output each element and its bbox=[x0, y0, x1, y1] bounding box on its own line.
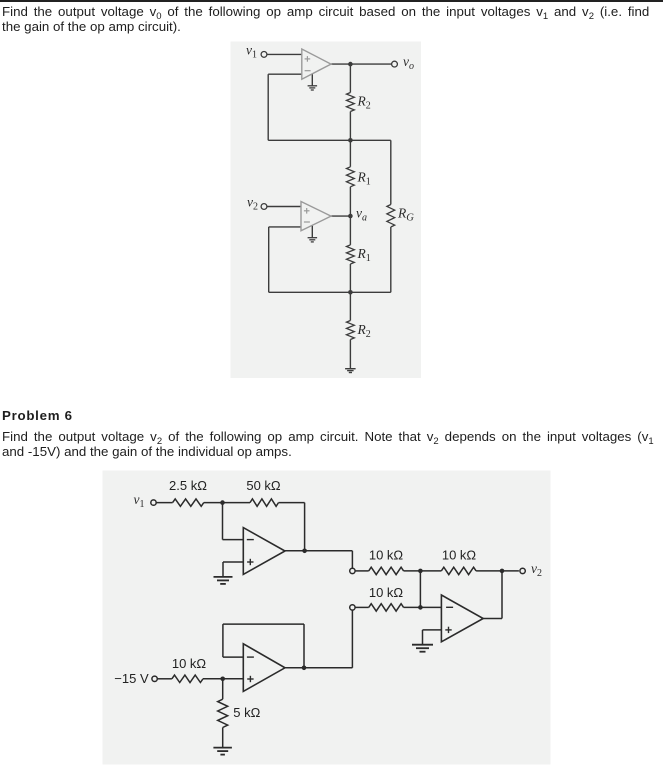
svg-text:10 kΩ: 10 kΩ bbox=[172, 656, 207, 671]
svg-text:−15 V: −15 V bbox=[114, 671, 149, 686]
svg-text:50 kΩ: 50 kΩ bbox=[246, 478, 281, 493]
svg-text:10 kΩ: 10 kΩ bbox=[442, 548, 477, 563]
svg-text:10 kΩ: 10 kΩ bbox=[369, 585, 404, 600]
svg-text:2.5 kΩ: 2.5 kΩ bbox=[169, 478, 207, 493]
svg-text:5 kΩ: 5 kΩ bbox=[233, 705, 260, 720]
svg-text:10 kΩ: 10 kΩ bbox=[369, 548, 404, 563]
